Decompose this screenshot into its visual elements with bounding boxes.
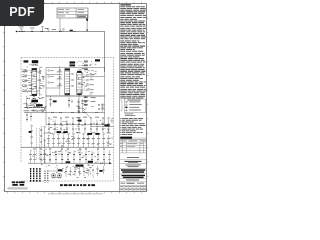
legend footnote lines — [125, 113, 134, 116]
hold list black bar — [120, 137, 132, 139]
notes column heading — [120, 4, 130, 5]
valve drop assembly row2-7 — [61, 151, 63, 164]
valve drop assembly row2-1 — [30, 151, 32, 164]
valve drop assembly row0-3 — [60, 120, 62, 134]
drain valve — [26, 107, 28, 108]
pump P-02 — [57, 173, 61, 177]
vessel V-03 bottom head dark — [77, 93, 81, 95]
scale size row — [121, 182, 126, 185]
valve drop assembly row1-10 — [93, 135, 95, 147]
row2 tag blobs — [58, 169, 63, 171]
numbered notes lower block — [119, 117, 122, 120]
vessel V-02 internals trays — [65, 71, 69, 73]
equipment title strip center — [60, 184, 63, 186]
valve drop assembly row1-8 — [83, 135, 85, 147]
pressure indicator on header — [47, 28, 49, 30]
speckle left piping row — [23, 102, 46, 112]
valve drop assembly row0-8 — [90, 120, 92, 134]
valve drop assembly row1-12 — [103, 135, 105, 147]
inlet signal line from table — [86, 22, 88, 31]
pump P-01 — [51, 173, 55, 177]
lower right extra chain B — [103, 166, 105, 174]
right train tags — [91, 96, 96, 99]
valve drop assembly row2-12 — [91, 151, 93, 164]
header start flag — [16, 31, 18, 33]
interconnect pipe upper — [46, 74, 62, 76]
skid outline upper — [46, 68, 105, 97]
valve drop assembly row2-13 — [97, 151, 99, 164]
sub-header line right — [90, 126, 114, 128]
valve drop assembly row1-5 — [68, 135, 70, 147]
right train instrument stack 1 — [84, 61, 86, 62]
valve manifold striped block — [30, 168, 32, 182]
second striped block — [44, 171, 46, 183]
valve drop assembly row1-13 — [108, 135, 110, 147]
valve drop assembly row2-10 — [79, 151, 81, 164]
legend symbol triangle — [125, 101, 127, 103]
valve drop assembly row0-9 — [96, 120, 98, 134]
client row text — [126, 164, 141, 167]
equipment tag label left — [24, 60, 29, 62]
lower pipe header valves — [52, 112, 54, 113]
left drain chain 2 — [30, 113, 32, 122]
bottom cells text bottom — [120, 188, 123, 191]
notes column left border — [119, 4, 121, 192]
valve drop assembly row2-2 — [34, 151, 36, 164]
left mid valve chain 2 — [40, 126, 42, 147]
table drop line — [59, 18, 61, 32]
header spec break tag — [70, 30, 73, 32]
mid vertical pipe — [59, 66, 61, 95]
lower right extra chain A — [97, 166, 99, 176]
tie-in tag blob right edge — [104, 124, 109, 126]
speckle left train — [23, 64, 45, 99]
valve drop assembly row1-11 — [98, 135, 100, 147]
pump suction piping — [48, 170, 62, 172]
valve drop assembly row2-14 — [103, 151, 105, 164]
right riser line — [39, 68, 41, 96]
valve drop assembly row1-1 — [48, 135, 50, 147]
strainer tag blob — [36, 104, 43, 106]
vessel bottom knots — [27, 98, 29, 99]
title block top line — [120, 139, 147, 141]
skid outline lower — [46, 96, 105, 125]
package battery-limit dashed boundary bottom — [21, 180, 114, 182]
valve drop assembly row0-11 — [108, 120, 110, 134]
header instrument E — [63, 28, 65, 30]
valve drop assembly row2-6 — [55, 151, 57, 164]
valve drop assembly row2-15 — [109, 151, 111, 164]
left train instrument row above piping — [26, 104, 28, 106]
vessel V-02 bottom head dark — [65, 93, 70, 95]
valve drop assembly row2-9 — [73, 151, 75, 164]
valve drop assembly row2-5 — [49, 151, 51, 164]
valve drop assembly row1-4 — [63, 135, 65, 147]
mid lower chain B — [68, 97, 70, 108]
left boundary tag blob — [29, 131, 32, 133]
vessel V-01 internals trays — [32, 71, 36, 73]
vessel V-02 shell — [65, 69, 70, 96]
subtitle small row — [126, 179, 139, 182]
left mid valve chain 1 — [31, 127, 33, 147]
left instrument cluster column — [23, 70, 25, 71]
top border grid tick marks — [8, 2, 142, 4]
valve drop assembly row0-5 — [72, 120, 74, 134]
speckle mid band rows — [48, 118, 113, 146]
legend symbol circle — [126, 104, 128, 106]
vessel V-02 side instruments — [72, 73, 74, 75]
PDF badge — [0, 0, 44, 26]
legend symbol anchor — [125, 109, 127, 111]
consultant row text — [127, 156, 139, 159]
company name text — [125, 161, 142, 162]
project title line — [120, 167, 147, 169]
cluster near dashed edge — [98, 104, 100, 106]
drawing title dark rows — [121, 175, 145, 176]
valve drop assembly row2-8 — [67, 151, 69, 164]
footer fine print below frame — [48, 193, 103, 196]
revision table header text — [120, 140, 122, 143]
left train lower tags — [24, 110, 30, 113]
valve drop assembly row2-4 — [44, 151, 46, 164]
header valve knot D — [59, 31, 61, 32]
interconnect pipe lower — [46, 87, 60, 89]
mid lower tag — [53, 100, 57, 102]
revision table grid — [120, 142, 147, 144]
valve drop assembly row0-4 — [66, 120, 68, 134]
vessel top instruments pair — [32, 64, 34, 66]
left train bottom piping row — [24, 107, 46, 109]
left mid valve chain 3 — [44, 128, 46, 147]
valve drop assembly row0-10 — [102, 120, 104, 134]
drawing frame border — [5, 4, 147, 192]
valve drop assembly row1-7 — [78, 135, 80, 147]
inlet valve group A — [19, 31, 21, 32]
highlighted value cell — [77, 15, 87, 17]
right train instrument stack 3 — [84, 68, 86, 69]
valve drop assembly row2-3 — [40, 151, 42, 164]
main inlet pipe header — [18, 31, 105, 33]
valve drop assembly row0-1 — [48, 120, 50, 134]
right border grid tick marks — [147, 18, 149, 191]
equipment tag label vessel — [32, 60, 38, 63]
mid lower chain A — [50, 96, 52, 107]
right train bottom valves — [78, 107, 80, 108]
valve drop assembly row1-6 — [73, 135, 75, 147]
bottom border grid tick marks — [8, 192, 142, 194]
right train pipeline to header — [82, 76, 105, 78]
right train valve chain 1 — [78, 99, 80, 113]
speckle right train — [76, 61, 97, 110]
left border grid tick marks — [3, 18, 5, 191]
vessel V-03 internals trays — [77, 74, 81, 76]
right train drain slant — [83, 110, 91, 118]
valve drop assembly row0-7 — [84, 120, 86, 134]
vessel V-03 top head dark — [77, 71, 81, 73]
right train stack leader lines — [78, 61, 83, 63]
right train instrument stack 2 — [84, 65, 86, 66]
vessel V-01 top head dark — [32, 69, 37, 71]
secondary header elbow — [44, 140, 46, 163]
header elbow down — [104, 32, 106, 73]
lower right instruments — [88, 169, 90, 171]
right train lower instrument squares — [84, 97, 86, 98]
right train instruments east — [87, 74, 89, 76]
main collection header — [21, 146, 114, 148]
skid edge instruments — [48, 70, 50, 72]
row1 tag blobs — [57, 131, 61, 133]
left train pipe drops — [26, 96, 28, 108]
bottom left boundary note — [8, 188, 28, 191]
vessel bottom tag blob — [31, 100, 38, 103]
bottom cells dividers — [123, 185, 125, 191]
arrowhead into header — [86, 30, 88, 32]
equipment tag label mid line2 — [70, 64, 76, 66]
project title dark rows — [121, 169, 145, 171]
design data table — [57, 8, 88, 18]
page background — [0, 0, 149, 198]
legend border box — [124, 99, 146, 113]
valve drop assembly row0-6 — [78, 120, 80, 134]
vessel V-02 top head dark — [65, 69, 70, 71]
vessel V-01 shell — [32, 68, 37, 96]
equipment tag label mid line1 — [70, 61, 76, 63]
speckle bottom cluster — [56, 166, 94, 178]
legend bracket — [121, 100, 123, 111]
equipment tag label right — [95, 59, 100, 61]
riser valves — [39, 71, 41, 72]
valve drop assembly row0-2 — [54, 120, 56, 134]
valve drop assembly row2-11 — [85, 151, 87, 164]
drain valve — [34, 107, 36, 108]
mid column tiny instruments — [59, 69, 61, 71]
riser instruments — [43, 76, 45, 78]
vessel V-03 shell — [77, 73, 82, 95]
vessel V-01 bottom head dark — [32, 94, 37, 96]
lower right cluster valves — [65, 167, 67, 176]
package battery-limit dashed boundary right — [113, 58, 115, 181]
package battery-limit dashed boundary left — [20, 58, 22, 163]
drain valve — [30, 107, 32, 108]
outlet line with valve — [96, 162, 110, 164]
revision row entries — [120, 143, 122, 146]
signal dashed lines down — [36, 128, 38, 160]
legend symbol dark glyph — [125, 107, 127, 109]
valve drop assembly row1-9 — [88, 135, 90, 147]
drain valve — [42, 107, 44, 108]
equipment title strip left — [12, 181, 15, 183]
long lower pipe header — [24, 112, 105, 114]
secondary header — [28, 162, 96, 164]
lower right extra tag — [99, 170, 102, 172]
bottom cells text top — [120, 185, 123, 188]
left drain chain 1 — [26, 112, 28, 122]
drain valve — [38, 107, 40, 108]
inlet valve C and riser — [41, 31, 43, 32]
general notes text block — [120, 5, 145, 8]
valve drop assembly row1-2 — [53, 135, 55, 147]
right train valve chain 2 — [82, 99, 84, 113]
legend title line — [128, 99, 141, 102]
valve drop assembly row1-3 — [58, 135, 60, 147]
speckle lower band rows — [31, 149, 97, 166]
outlet arrow flag — [109, 162, 112, 164]
package battery-limit dashed boundary top — [21, 57, 114, 59]
client row line — [120, 163, 147, 165]
company row line — [120, 159, 147, 161]
bottom cells mid line — [120, 188, 147, 190]
tie-in flag arrow — [86, 19, 88, 23]
right train valve cluster top — [88, 70, 90, 71]
inlet valve B with actuator — [31, 31, 33, 32]
